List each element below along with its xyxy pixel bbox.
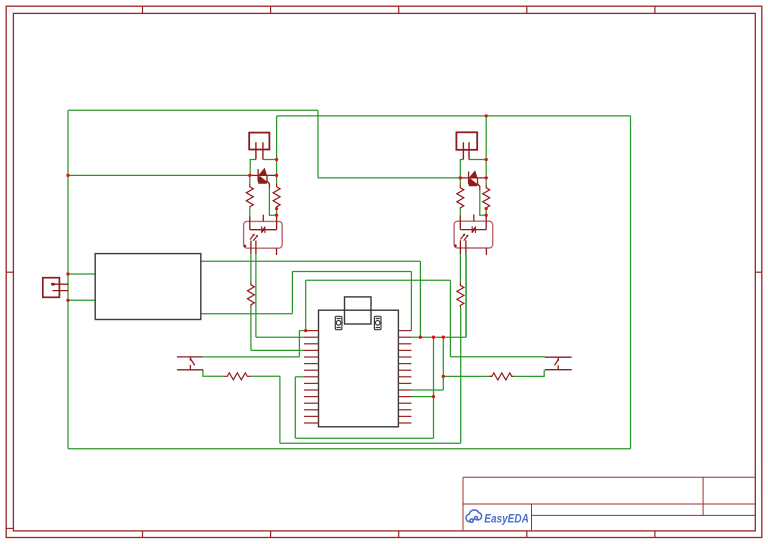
junction node right R6 net [442,375,445,378]
junction node AC-L at bus x68 [66,174,69,177]
border zone ticks top [143,6,655,13]
switch S1 (left) [177,357,203,370]
wire to MCU pin L2 [256,336,305,338]
border zone tick left middle [6,271,13,273]
junction node right triac MT2 [459,176,462,179]
wire MCU pin R2 ground run [411,336,466,338]
MCU U3 left pin 1 [304,330,319,332]
wire left R2 bottom to gate node [276,207,278,215]
resistor R2 (left triac leg B) [273,183,280,207]
wire opto U2 LED anode drop [459,254,461,283]
MCU module U3 body [319,310,399,427]
wire net AC-N top run [277,115,631,117]
wire bottom run y=443 [280,442,461,444]
border zone tick right middle [755,271,762,273]
wire right gate run [480,190,486,215]
wire bottom run y=438 [295,437,433,439]
wire left gate run [269,188,276,216]
wire MCU pin R11 stub [411,396,433,398]
wire net AC-L top run [68,109,318,111]
MCU button B1 [335,316,342,329]
wire opto U2 cathode drop [465,254,467,337]
wire pin L1 run to right switch [306,279,451,281]
wire left triac MT2 lead down [276,175,278,183]
opto-triac U2 (right) [454,215,493,256]
wire bottom return run [68,448,631,450]
resistor R4 (below opto U2) [457,283,464,308]
MCU U3 right pin 29 [398,415,411,417]
junction node left triac MT2 [248,174,251,177]
junction node GND at x433 [432,336,435,339]
wire to MCU pin L4 [251,349,305,351]
resistor R8 (right triac leg B) [483,184,490,208]
MCU U3 left pin 12 [304,402,319,404]
wire MCU pin L1 riser [305,280,307,330]
wire right R7 bottom lead to opto [459,208,461,216]
wire net AC-L jog to right triac [318,177,460,179]
MCU U3 right pin 22 [398,369,411,371]
wire opto U1 R3 bottom drop [250,308,252,351]
wire opto U1 LED cathode drop [255,254,257,337]
wire J2 junction drop to triac [276,160,278,176]
resistor R6 (right horizontal) [490,373,514,380]
MCU U3 left pin 8 [304,376,319,378]
MCU U3 left pin 14 [304,415,319,417]
junction node right gate [485,214,488,217]
MCU U3 right pin 27 [398,402,411,404]
wire right R8 bottom to gate node [485,208,487,216]
border zone ticks bottom [143,531,655,538]
wire module 3V3 output run [201,313,293,315]
MCU U3 right pin 17 [398,336,411,338]
wire MCU pin L1 stub left [299,330,305,332]
wire left switch bottom jog [203,370,224,377]
border notch bottom left [6,527,13,529]
MCU U3 right pin 25 [398,389,411,391]
junction node right triac MT1 [485,176,488,179]
resistor R5 (left horizontal) [224,373,251,380]
MCU U3 left pin 5 [304,356,319,358]
junction node GND at x443 [442,336,445,339]
wire left R5 to riser [251,375,280,377]
MCU U3 right pin 20 [398,356,411,358]
MCU U3 right pin 19 [398,349,411,351]
junction node AC-N drop [485,114,488,117]
junction node MCU pin R11 [432,395,435,398]
junction node left R2 bottom [275,207,278,210]
junction node J2 pin2 [275,158,278,161]
MCU U3 left pin 15 [304,422,319,424]
junction node MCU pin L1 [304,329,307,332]
MCU U3 right pin 30 [398,422,411,424]
EasyEDA logo cloud [466,510,482,522]
wire to right switch top terminal [450,356,545,358]
MCU U3 left pin 3 [304,343,319,345]
connector J1 (left 2-pin) [43,278,69,298]
wire to left switch top terminal [203,356,299,358]
triac Q2 (right) [460,170,486,190]
wire connector J3 pin1 jog [460,160,463,178]
wire net AC-N right drop at x=630 [630,116,632,449]
wire riser to MCU pin R11 [433,337,435,438]
MCU U3 left pin 4 [304,349,319,351]
wire module 3V3 top run [292,271,411,273]
svg-text:EasyEDA: EasyEDA [484,512,529,526]
wire left vertical bus x=68 [67,110,69,449]
wire module input pin 1 [68,273,95,275]
MCU U3 right pin 23 [398,376,411,378]
wire AC-L to left triac node [68,174,250,176]
wire connector J2 pin2 jog [263,159,277,161]
MCU U3 left pin 13 [304,409,319,411]
switch S2 (right) [545,357,572,370]
MCU U3 right pin 26 [398,396,411,398]
wire connector J3 pin2 jog [469,159,486,161]
wire to MCU pin R10 [411,389,443,391]
wire left triac MT1 lead down [249,175,251,183]
triac Q1 (left) [250,168,277,188]
junction node J3 pin2 [485,158,488,161]
wire right triac MT1 lead down [459,178,461,184]
title block outline [463,477,755,531]
wire AC-N drop to J3 junction [485,116,487,160]
wire right triac MT2 lead down [485,178,487,184]
MCU U3 right pin 21 [398,363,411,365]
MCU U3 left pin 2 [304,336,319,338]
wire left R1 bottom lead to opto [249,207,251,215]
wire to right R6 resistor [443,375,491,377]
wire pin L8 drop [294,377,296,438]
MCU USB connector [345,297,372,324]
wire MCU pin L8 stub [295,376,304,378]
wire opto U1 LED anode drop [250,254,252,282]
MCU U3 right pin 28 [398,409,411,411]
junction node module input 2 [66,299,69,302]
resistor R7 (right triac leg A) [457,184,464,208]
wire right R6 to switch jog [511,370,544,377]
MCU U3 left pin 10 [304,389,319,391]
junction node module input 1 [66,272,69,275]
wire net AC-N left drop to connector J2 [276,116,278,160]
wire net AC-L drop at x=318 [317,110,319,178]
junction node left gate [275,214,278,217]
wire J3 junction drop to right triac [485,160,487,178]
MCU U3 left pin 7 [304,369,319,371]
wire pin L1 drop [298,331,300,357]
MCU U3 left pin 9 [304,382,319,384]
wire riser x=280 down [279,376,281,443]
wire drop to right switch level [449,280,451,357]
wire module input pin 2 [68,299,95,301]
junction node GND at x420 [419,336,422,339]
wire module VCC output run [201,260,421,262]
resistor R3 (below opto U1) [247,282,254,308]
MCU U3 right pin 18 [398,343,411,345]
opto-triac U1 (left) [244,215,283,255]
connector J3 (top right 2-pin) [456,132,477,159]
wire module VCC drop to MCU pin R2 [419,261,421,337]
wire module 3V3 riser [291,272,293,314]
wire riser to right R4 bottom [460,308,462,444]
wire drop from R2 line to R10 level [442,337,444,390]
resistor R1 (left triac leg A) [246,183,253,207]
wire module 3V3 drop to MCU pin R1 [410,272,412,331]
connector J2 (top left 2-pin) [249,133,269,160]
junction node right R8 bottom [485,207,488,210]
MCU U3 left pin 6 [304,363,319,365]
MCU button B2 [374,316,381,329]
MCU U3 right pin 24 [398,382,411,384]
junction node left triac MT1 [275,174,278,177]
MCU U3 left pin 11 [304,396,319,398]
power module M1 (black box) [95,254,201,320]
wire riser to right opto cathode [465,254,467,337]
wire connector J2 pin1 jog [250,160,256,176]
MCU U3 right pin 16 [398,330,411,332]
